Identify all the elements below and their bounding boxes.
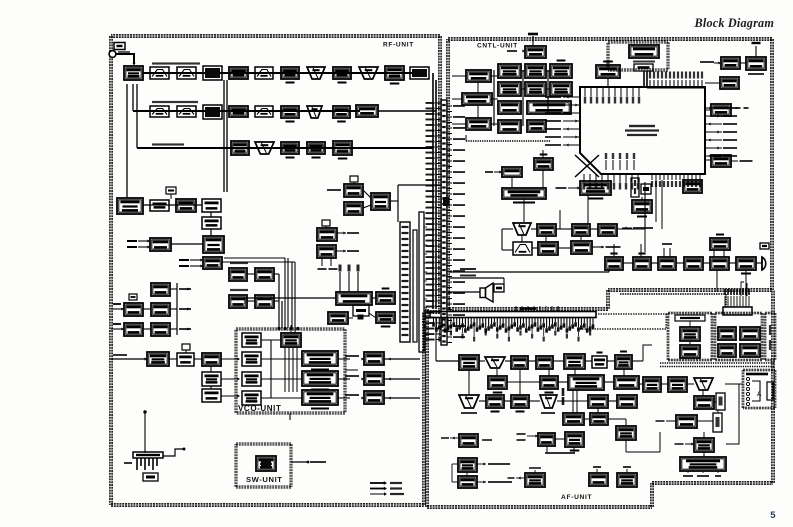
PLL feed stems	[339, 272, 341, 292]
wire RF row2 bus	[133, 110, 360, 112]
option1 connector bar	[675, 315, 705, 321]
J mini box right border	[760, 243, 769, 249]
wire loudspk to blank	[740, 62, 746, 64]
LIMITER afA4	[536, 356, 553, 369]
SW-UNIT border	[236, 442, 291, 444]
LED CNTL box	[498, 64, 521, 78]
mic amp row5-1	[150, 238, 171, 251]
wire afD	[584, 418, 590, 420]
wire strip to A-B-C	[452, 75, 466, 77]
top box above audio5	[710, 238, 730, 250]
afG1 labels right	[477, 481, 486, 483]
FLAG CNTL c3r2	[525, 82, 546, 96]
arrow from border stack1	[111, 308, 124, 310]
CPU top rail to LCD	[647, 87, 705, 89]
det afB4	[614, 376, 639, 389]
CPU X mark corner	[575, 155, 599, 177]
wire right bar feeds	[741, 282, 744, 296]
svg-text:SW-UNIT: SW-UNIT	[246, 475, 283, 484]
det afC2	[486, 395, 504, 408]
AF/TONE IN box afF1	[458, 458, 477, 472]
amp stack bottom B	[202, 389, 221, 402]
THROTTLE DATA arrow left	[622, 227, 632, 229]
TX RX option2c	[718, 344, 736, 357]
LAMP label G3	[593, 466, 601, 468]
wire shiftic	[641, 197, 643, 200]
SIGNAL box afA1	[459, 355, 479, 370]
arrow into bottom chain	[111, 358, 147, 360]
bandpass filter row2-3	[255, 106, 273, 117]
buffer amp 2b	[255, 295, 274, 308]
battery cells	[136, 458, 138, 470]
wire CPU to audio chain verticals	[644, 182, 646, 229]
svg-text:5: 5	[770, 510, 776, 521]
CPU DATA buffer box right	[711, 104, 731, 116]
loop filter 2	[364, 372, 384, 385]
audio box 4	[684, 257, 703, 270]
VCO IN box 2	[242, 372, 261, 386]
wire afB	[507, 381, 540, 383]
amp stack bottom A	[202, 372, 221, 386]
right bar pins above	[724, 296, 726, 307]
TX VCO box 2	[302, 371, 338, 386]
speaker jack dashed box	[743, 368, 775, 370]
wire af feed from bar	[435, 318, 437, 361]
CONDENSER option2b	[740, 327, 760, 340]
TX RX option2a	[718, 327, 736, 340]
CPU bottom pins group1	[583, 174, 585, 182]
LOUDSPK box	[721, 57, 740, 69]
LCD CNTL c2r3	[498, 101, 521, 114]
label row1 band text	[152, 62, 200, 64]
jack bracket	[752, 381, 760, 401]
crystal filter row3	[255, 142, 274, 154]
SHIFT IC box	[632, 200, 652, 213]
RX VCO arrow label 2	[345, 375, 359, 377]
option unit 1 border	[668, 311, 712, 313]
wire rf-level to PLL vertical pair	[278, 274, 280, 328]
4.5V label	[507, 50, 517, 52]
buffer stack R2	[151, 303, 170, 316]
POWER SWITCH box	[736, 257, 756, 270]
buffer afrow1-4	[598, 224, 617, 236]
reference osc box	[328, 312, 348, 324]
audio line labels	[460, 268, 476, 270]
LCD stem	[643, 71, 645, 88]
RF amp row2-2	[281, 106, 299, 118]
switch box stack L1	[124, 303, 143, 316]
wire row4 stack vertical	[210, 212, 212, 217]
det afA5	[564, 354, 585, 369]
TX RX box B	[344, 202, 363, 215]
BLANK IN label	[748, 73, 764, 75]
stems below PLL C-D	[321, 258, 323, 266]
svg-text:AF-UNIT: AF-UNIT	[561, 494, 592, 501]
limiter row3	[231, 141, 249, 155]
LCD CNTL c2r4	[498, 120, 521, 133]
AF AMP afA3	[511, 356, 528, 369]
TOP KEY box	[596, 65, 620, 78]
LAMP 40 box afG4	[617, 473, 637, 487]
RF LEVEL label 2	[230, 289, 248, 291]
crystal dark square	[358, 315, 364, 320]
TX VCO box 1	[302, 351, 338, 366]
modulator row5-2	[203, 236, 224, 253]
LCD lamp box	[634, 64, 653, 71]
svg-text:RF-UNIT: RF-UNIT	[383, 42, 414, 49]
+B label	[124, 462, 132, 464]
wire PLL left loop	[245, 298, 336, 304]
wire rf level 1	[247, 273, 255, 275]
osc bottom 2	[177, 353, 194, 366]
afF1 labels right	[477, 463, 486, 465]
CNTRL AMP box	[281, 333, 301, 347]
RF LEVEL label 1	[230, 262, 248, 264]
40 AMP c3r4	[527, 120, 546, 132]
MUTE SW afD1	[563, 413, 584, 425]
wire audio chain	[623, 262, 633, 264]
battery feed wire	[144, 413, 146, 453]
RESET box below CPU	[683, 180, 702, 193]
wire audio to right bar	[745, 270, 747, 296]
jack circles	[746, 377, 749, 380]
mixer row2 wide	[356, 105, 378, 117]
wire lcd cluster verticals	[493, 70, 495, 126]
wire mixer double vertical	[223, 80, 225, 192]
wire bottom stack	[210, 366, 212, 372]
wire top key stem	[607, 78, 609, 87]
wire rf level 2	[247, 300, 255, 302]
speaker symbol	[480, 288, 486, 298]
TX RX afE2	[538, 433, 555, 446]
CPU right pins	[705, 107, 722, 109]
LCD DRIVER 2	[466, 118, 491, 130]
wire afrow2	[502, 249, 513, 251]
MUTE SW afR1	[643, 377, 661, 392]
TX RX right of PLL	[376, 292, 395, 304]
limiter row1	[229, 67, 248, 79]
legend SIG LINE arrow	[370, 493, 384, 495]
TX RX box A	[344, 184, 363, 197]
svg-text:CNTL-UNIT: CNTL-UNIT	[477, 43, 518, 50]
AF/TONE IN box afG1	[458, 476, 477, 488]
TX RX afrow2 w arrow	[571, 241, 592, 254]
MIC audio box 3	[658, 257, 676, 270]
wire dcvolt2 stem	[542, 150, 544, 158]
MIC arrow into modulator	[568, 187, 580, 189]
wire afE	[555, 438, 565, 440]
switch box stack L2	[124, 323, 143, 336]
combiner box	[371, 193, 390, 210]
LCD DRIVER wide box	[462, 93, 492, 105]
wire afrow1	[502, 228, 513, 230]
LCD display box	[629, 45, 659, 58]
RF amp row2 (dark)	[203, 105, 222, 119]
cpu data out dashes	[736, 107, 741, 109]
DC VOLT box 1	[502, 167, 522, 177]
wire af right verticals	[643, 345, 652, 361]
stem A-B-C up	[477, 82, 479, 93]
bar pins above	[515, 306, 517, 312]
wire audio drop to speaker bus	[449, 271, 609, 273]
wire VCO internals	[261, 339, 281, 341]
wire txrx right	[705, 159, 711, 161]
S/N SENSOR wide	[527, 101, 571, 114]
trap afC4	[540, 395, 557, 408]
PLUG stem blank40	[755, 46, 757, 57]
RF amp row1 (dark)	[203, 66, 222, 80]
MIC IN box afE1	[459, 434, 478, 447]
trapezoid afA2	[485, 357, 505, 368]
connector entry block on CNTL border	[443, 197, 450, 206]
bandpass filter row1-1	[150, 67, 169, 79]
ANT connector box	[114, 43, 125, 50]
A-B-C LCD box	[466, 70, 491, 82]
battery top plate	[133, 452, 163, 458]
SW-UNIT switch box	[256, 456, 276, 471]
J connector strip C	[419, 212, 424, 352]
wire afR4	[702, 391, 704, 396]
option unit 3 narrow border	[765, 311, 775, 313]
AUTO DIMMER wide box	[502, 188, 546, 199]
AF AMP afD2	[590, 413, 608, 425]
arrow labels right of stack	[179, 288, 191, 290]
narrow bar afR7	[713, 413, 722, 432]
J mini above TXRX pair	[350, 176, 358, 182]
J connector strip B2	[413, 230, 417, 342]
TX RX box right of CPU	[711, 155, 731, 167]
earpiece symbol	[762, 257, 766, 270]
TX RX afR4	[694, 396, 714, 409]
trap afR3	[694, 378, 713, 390]
det afC3	[511, 395, 529, 408]
AF-UNIT border	[425, 309, 427, 507]
RF splitter box	[124, 66, 143, 80]
filter afrow2-1	[513, 242, 532, 255]
wire strip top feed	[398, 184, 441, 186]
VCO top junction dots	[283, 327, 286, 330]
wire row4 bus	[143, 204, 202, 206]
RF-UNIT border	[111, 34, 440, 36]
audio box 5 with top box	[710, 257, 729, 270]
battery step wire	[163, 449, 184, 456]
buffer amp below TX RX	[376, 312, 395, 323]
shift box VCO	[242, 333, 261, 347]
rf level det 1a	[229, 268, 247, 281]
label row2 band text	[152, 101, 198, 103]
CPU left pins	[563, 96, 580, 98]
wire jack to chain	[725, 383, 743, 385]
buffer bottom 1	[147, 352, 169, 366]
legend TX LINE arrow	[370, 488, 384, 490]
option bottom dotted lines	[660, 362, 775, 364]
LAMP AMP label	[633, 61, 655, 63]
rf level det 2a	[229, 295, 247, 308]
SUPER 40 box	[680, 327, 700, 341]
TX RX option1	[680, 345, 700, 358]
wire main RX/TX vertical pair	[432, 73, 434, 309]
wire bundle horizontals	[222, 261, 295, 263]
antenna jack circle	[109, 51, 116, 58]
loop filter 1	[364, 352, 384, 365]
CNTL-UNIT border	[446, 39, 448, 309]
wire loopfil outputs	[384, 358, 420, 360]
40 AMP top box	[525, 46, 546, 58]
SP mini box	[494, 284, 504, 292]
RF amp row3-2	[307, 142, 325, 154]
LAMP 40 box afG3	[589, 473, 608, 486]
TX RX afR6	[676, 415, 697, 428]
wire keyhold to cpu	[705, 82, 720, 84]
option unit 2 border	[715, 311, 762, 313]
crystal filter row1-1	[307, 67, 325, 79]
IF amp row2	[333, 106, 350, 118]
wire afR6	[666, 420, 676, 422]
KEY HOLD box	[720, 77, 739, 89]
CPU top pins group1 (inside)	[584, 88, 586, 96]
wire row5	[171, 243, 203, 245]
VCO-UNIT border	[236, 327, 345, 329]
afE1 labels	[450, 437, 459, 439]
arrow from border stack2	[111, 328, 124, 330]
40 OHMS trap afC1	[459, 395, 479, 408]
IF amp row1	[333, 67, 351, 79]
buffer stack R3	[151, 323, 170, 336]
MUTE SW afC5	[588, 395, 608, 408]
MODUL IN arrows row6	[190, 259, 203, 261]
X'TAL small box below cpu	[641, 184, 651, 194]
dotted bus to option units	[598, 313, 668, 315]
DC VOLT box 2	[534, 158, 553, 170]
det afA7	[615, 355, 632, 369]
wire afF stack	[452, 463, 458, 465]
afE2 input arrows	[527, 435, 538, 437]
bandpass filter row2-1	[150, 106, 169, 117]
RX VCO arrow label 3	[345, 394, 359, 396]
main interconnect bar	[430, 312, 596, 318]
CNTL-UNIT inner bus border	[620, 293, 726, 295]
buffer bottom 3	[202, 353, 221, 366]
bandpass filter row1-2	[177, 67, 196, 79]
SIGNAL GN afB2	[540, 376, 558, 389]
battery feed dot	[143, 410, 146, 413]
battery minus box	[143, 473, 158, 481]
4/0 CNTL c4r2	[550, 82, 572, 96]
wire cpu to databuffer	[705, 109, 711, 111]
wire stack connects	[143, 308, 151, 310]
MAIN wide box afR9	[680, 457, 726, 471]
LCD CNTL c2r2	[498, 82, 521, 96]
sub modulator afrow2	[538, 242, 558, 255]
wire afR8	[685, 443, 694, 445]
crystal logic box	[353, 305, 369, 316]
wire PLL to box	[372, 297, 376, 299]
svg-text:Block Diagram: Block Diagram	[694, 16, 774, 30]
CPU bottom pins group2	[651, 174, 653, 180]
RF amp row1-2	[281, 67, 299, 79]
PLUG stem top	[532, 36, 534, 46]
VCO IN box 1	[242, 352, 261, 366]
wire bottom chain	[169, 358, 177, 360]
RX IF counter box	[117, 198, 143, 214]
AF volume vertical bar	[562, 388, 565, 396]
bandpass filter row2-2	[177, 106, 196, 117]
VOLT VOL box	[605, 257, 623, 270]
LAMP label G4	[623, 466, 631, 468]
right connector bar	[723, 307, 752, 315]
crystal filter row2	[307, 106, 322, 118]
CPU bottom chamfer pins	[605, 160, 607, 170]
wire RF row1 bus	[143, 72, 412, 74]
jack pin bar	[767, 382, 773, 400]
LCD display unit border	[608, 40, 668, 42]
RF amp row3-1	[281, 142, 299, 154]
wire TXRX to combiner	[363, 190, 371, 198]
RF-CNTL interconnect strip	[441, 100, 447, 345]
PLL IN box upper	[317, 228, 337, 241]
wire refosc链	[348, 317, 353, 319]
trap-in-box afE3	[565, 432, 584, 447]
BUFFER AMP c4r1	[550, 64, 572, 78]
limiter row2	[229, 106, 248, 117]
crystal X'TAL mini box row4	[166, 187, 176, 194]
detector row3	[333, 141, 352, 155]
buffer below row4	[202, 217, 221, 229]
loop filter 3	[364, 391, 384, 404]
CONDENSER option2d	[740, 344, 760, 357]
wire reset stem	[691, 174, 693, 180]
J mini box stack	[129, 294, 137, 300]
wire cntrl amp verticals	[284, 347, 286, 392]
reference osc row4-3	[176, 199, 196, 212]
bar label	[520, 307, 536, 309]
wire RF row3 bus	[137, 147, 433, 149]
detector row1 end	[410, 67, 429, 79]
BUFFER AMP c3r1	[525, 64, 546, 78]
bar pins below with labels	[433, 318, 435, 323]
wire vco bottom stub	[289, 413, 291, 420]
MUTE SW afR2	[668, 377, 687, 392]
afR9 below labels	[683, 475, 693, 477]
TX RX afG2	[525, 473, 545, 487]
audio box 2	[633, 257, 651, 270]
RX VCO arrow label 1	[345, 355, 359, 357]
wire option1	[689, 321, 691, 327]
wire vco to loopfil	[338, 358, 350, 360]
buffer afrow1-2	[537, 224, 556, 236]
wire afA chain	[479, 360, 485, 362]
svg-text:A: A	[757, 392, 762, 398]
PLL IN arrows right	[337, 232, 346, 234]
wire afR row	[661, 383, 668, 385]
DC VOLT arrow	[494, 171, 502, 173]
VCO IN box 3	[242, 391, 261, 405]
wire splitter feeds down	[126, 84, 128, 198]
PLL C-D box lower	[317, 245, 336, 258]
wire speaker line	[448, 291, 480, 293]
det afC6	[617, 395, 637, 408]
IF amp row1-2	[385, 66, 404, 80]
U-filter box afrow1	[513, 223, 531, 235]
TX VCO box 3	[302, 390, 338, 405]
J connector strip B (wide)	[400, 222, 410, 342]
wire dimmer stem	[511, 177, 513, 188]
MIC box afE4	[616, 426, 636, 440]
wire SW-UNIT out	[291, 461, 308, 463]
MAIN MODULATOR box below CPU	[580, 181, 611, 195]
wire bundle down to VCO top	[284, 258, 286, 328]
narrow bar afR5	[716, 393, 725, 410]
